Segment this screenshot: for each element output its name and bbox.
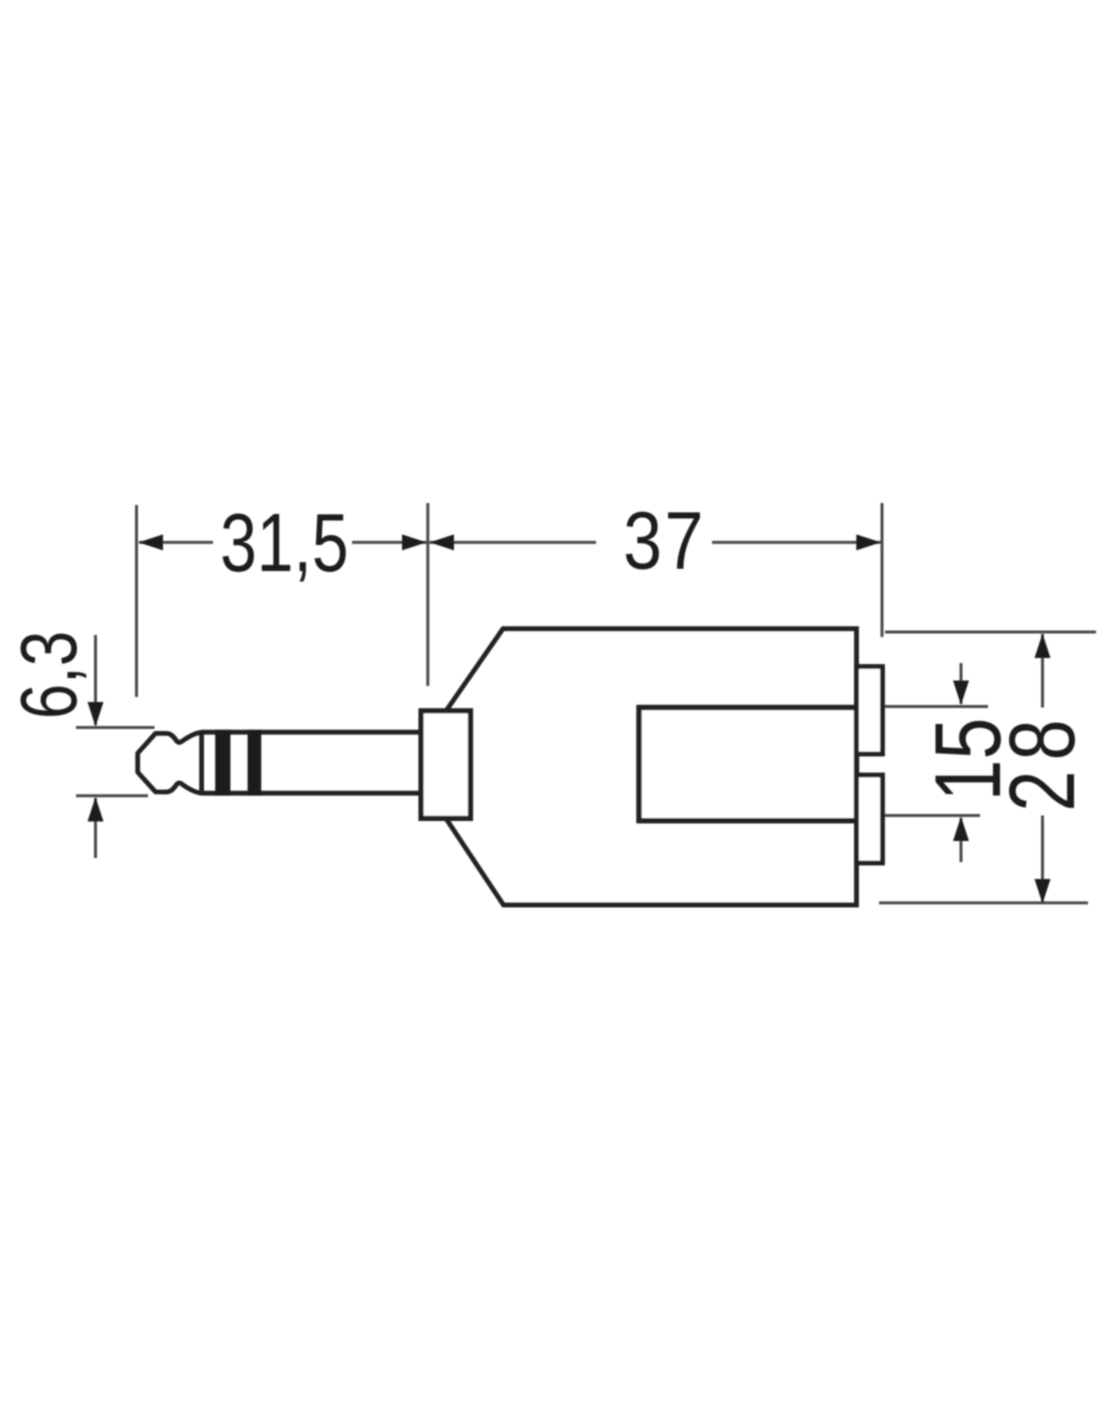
svg-text:31,5: 31,5 <box>220 496 348 589</box>
svg-text:6,3: 6,3 <box>5 631 93 719</box>
svg-text:37: 37 <box>623 496 706 587</box>
svg-text:28: 28 <box>990 709 1094 811</box>
